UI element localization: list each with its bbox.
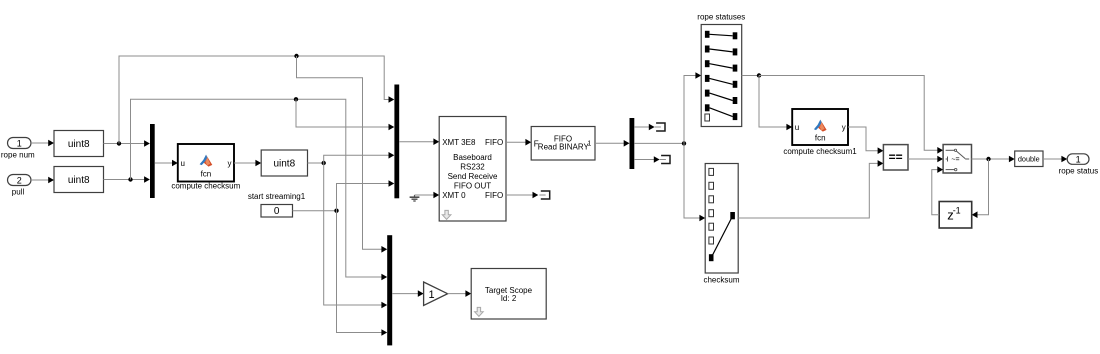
wire double to outport <box>1043 156 1067 163</box>
junction on rope statuses output <box>757 73 761 77</box>
junction on U2 output <box>128 177 132 181</box>
wire inport2 to uint8 U2 <box>31 177 54 184</box>
selector block rope statuses <box>701 25 742 127</box>
svg-text:~=: ~= <box>951 157 959 164</box>
svg-text:fcn: fcn <box>201 169 212 178</box>
Baseboard RS232 Send Receive FIFO OUT block <box>439 117 506 222</box>
svg-text:FIFO: FIFO <box>485 138 503 147</box>
svg-text:uint8: uint8 <box>273 159 295 170</box>
wire Baseboard FIFO to FIFO Read BINARY <box>506 139 531 146</box>
junction node B <box>294 97 298 101</box>
terminator T3 <box>541 191 550 199</box>
wire unit delay to switch input3 <box>932 166 943 214</box>
inport 1 (rope num) <box>8 138 32 149</box>
gain block value 1 <box>424 282 448 306</box>
svg-text:double: double <box>1018 155 1040 164</box>
svg-text:FIFO OUT: FIFO OUT <box>454 182 491 191</box>
wire U3 output to junction <box>308 162 324 164</box>
MATLAB function block compute checksum1 <box>792 109 848 145</box>
wire U3 to mux M2 input3 <box>324 152 395 163</box>
wire junction down to selector checksum <box>684 143 705 221</box>
data type conversion uint8 U2 <box>54 167 104 193</box>
svg-text:rope num: rope num <box>1 150 35 159</box>
wire ground to Baseboard XMT 0 <box>415 192 440 199</box>
svg-text:fcn: fcn <box>815 133 826 142</box>
svg-text:rope statuses: rope statuses <box>697 12 745 21</box>
svg-text:Send Receive: Send Receive <box>448 172 498 181</box>
unit delay z-1 block <box>939 202 972 229</box>
junction on U1 output <box>117 141 121 145</box>
wire net B: U2 branch toward mux M3 input2 <box>131 99 388 280</box>
svg-text:rope status: rope status <box>1059 167 1099 176</box>
selector block checksum <box>705 164 738 274</box>
relational operator == <box>883 145 908 170</box>
wire compute checksum1 to equality operator input1 <box>848 127 883 154</box>
svg-text:1: 1 <box>428 289 434 301</box>
wire U2 to mux M1 input2 <box>104 176 150 183</box>
svg-text:1: 1 <box>1076 154 1081 164</box>
outport 1 (rope status) <box>1067 154 1089 165</box>
terminator T1 <box>656 123 665 131</box>
data type conversion double <box>1015 151 1043 167</box>
wire junction down to compute checksum1 <box>759 76 792 131</box>
wire mux M1 to compute checksum <box>155 160 178 167</box>
svg-text:y: y <box>842 123 846 132</box>
svg-text:u: u <box>795 123 799 132</box>
terminator T2 <box>661 156 670 164</box>
arrowhead into double <box>1009 156 1015 163</box>
wire checksum to equality operator input2 <box>738 160 883 218</box>
svg-text:0: 0 <box>274 206 280 217</box>
wire gain to Target Scope <box>448 290 472 297</box>
svg-text:RS232: RS232 <box>460 162 485 171</box>
wire constant branch to mux M3 input4 <box>337 211 388 336</box>
svg-text:compute checksum1: compute checksum1 <box>783 147 857 156</box>
junction on demux out2 <box>682 141 686 145</box>
wire rope statuses to switch input1 <box>759 76 943 154</box>
svg-text:uint8: uint8 <box>68 175 90 186</box>
wire demux out2 to junction <box>634 142 684 144</box>
Target Scope block <box>471 269 546 320</box>
mux M3 <box>387 235 392 345</box>
svg-text:Read BINARY: Read BINARY <box>538 142 590 151</box>
svg-text:XMT 0: XMT 0 <box>442 191 466 200</box>
data type conversion uint8 U1 <box>54 131 104 157</box>
data type conversion uint8 U3 <box>261 150 307 176</box>
mux M1 <box>150 124 155 198</box>
wire demux out3 to terminator T2 <box>634 156 659 163</box>
svg-text:checksum: checksum <box>703 275 739 284</box>
wire net B branch to mux M2 input2 <box>296 99 394 130</box>
svg-text:1: 1 <box>587 140 591 147</box>
wire rope statuses output to junction <box>742 75 759 77</box>
mux M2 <box>394 85 399 199</box>
svg-text:==: == <box>889 150 903 164</box>
wire switch to double conversion <box>972 158 1010 160</box>
svg-text:Baseboard: Baseboard <box>453 153 492 162</box>
wire constant to junction <box>293 210 337 212</box>
wire mux M2 to Baseboard XMT 3E8 <box>399 138 439 145</box>
wire FIFO Read BINARY to demux D1 <box>595 140 630 147</box>
svg-text:FIFO: FIFO <box>485 191 503 200</box>
wire net A: U1 branch to mux M2 input1 <box>119 56 394 144</box>
svg-text:y: y <box>228 159 232 168</box>
inport 2 (pull) <box>8 175 32 186</box>
svg-text:-1: -1 <box>953 206 961 216</box>
switch block <box>943 145 971 174</box>
wire demux out1 to terminator T1 <box>634 124 654 131</box>
svg-text:compute checksum: compute checksum <box>171 181 240 190</box>
wire compute checksum to uint8 U3 <box>234 160 261 167</box>
FIFO Read BINARY block <box>531 127 595 161</box>
constant start streaming1 value 0 <box>261 205 293 218</box>
svg-text:uint8: uint8 <box>68 139 90 150</box>
wire Baseboard FIFO2 to terminator T3 <box>506 192 538 199</box>
MATLAB function block compute checksum <box>178 144 234 182</box>
wire mux M3 to gain <box>392 290 423 297</box>
junction node A on top wire <box>294 54 298 58</box>
ground block <box>410 195 420 201</box>
wire inport1 to uint8 U1 <box>31 140 54 147</box>
junction on U3 output <box>322 161 326 165</box>
svg-text:2: 2 <box>17 175 22 185</box>
demux D1 <box>630 118 635 169</box>
wire switch output to unit delay input <box>972 159 989 218</box>
wire junction up to selector rope statuses <box>684 72 701 143</box>
svg-text:start streaming1: start streaming1 <box>248 192 306 201</box>
svg-text:u: u <box>181 159 185 168</box>
svg-text:1: 1 <box>17 138 22 148</box>
wire == to switch input2 <box>908 156 943 163</box>
wire U1 to mux M1 input1 <box>104 140 150 147</box>
wire net A branch to mux M3 input1 <box>297 56 388 253</box>
svg-text:XMT 3E8: XMT 3E8 <box>442 138 476 147</box>
wire U3 branch to mux M3 input3 <box>324 163 388 308</box>
junction on switch output <box>986 157 990 161</box>
svg-text:pull: pull <box>12 187 25 196</box>
svg-text:Id: 2: Id: 2 <box>501 294 517 303</box>
wire constant to mux M2 input4 <box>337 180 395 211</box>
junction on constant output <box>334 209 338 213</box>
